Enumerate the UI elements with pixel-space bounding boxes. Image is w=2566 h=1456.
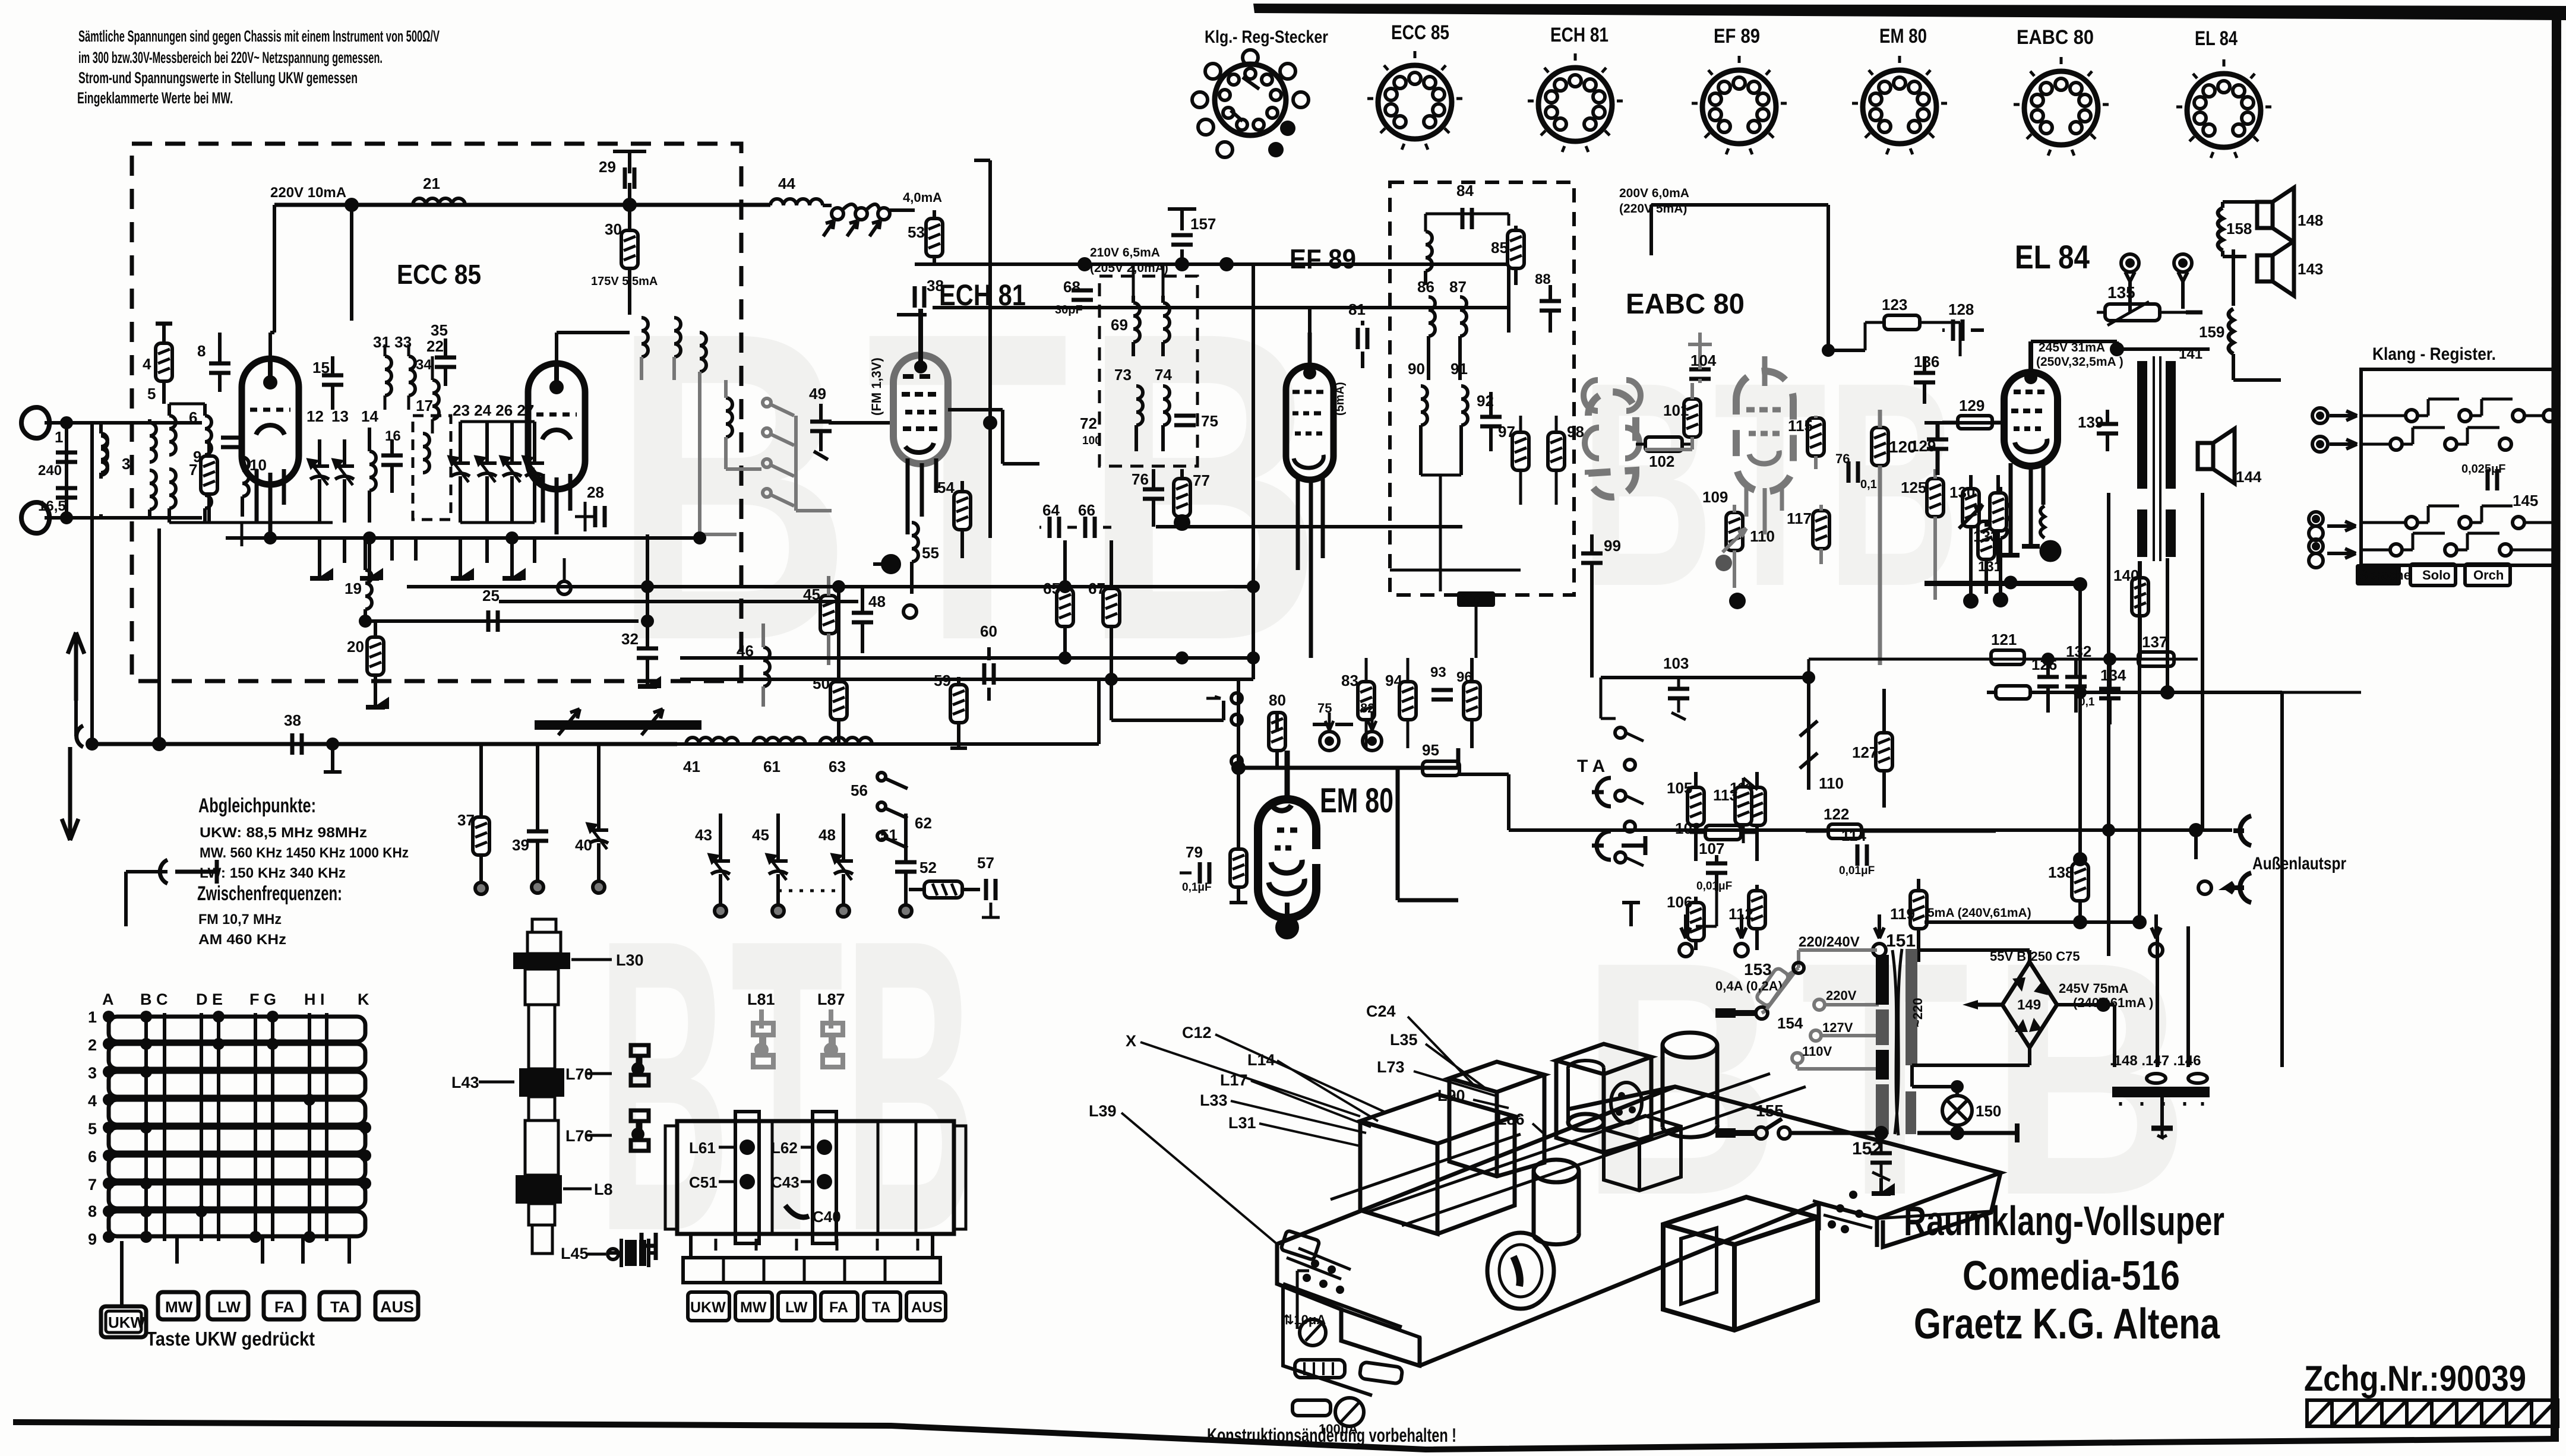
svg-text:ECC 85: ECC 85 xyxy=(1391,21,1449,44)
svg-text:B C: B C xyxy=(140,990,168,1008)
wire right x2353 xyxy=(1398,768,1458,900)
bridge right wire xyxy=(2057,1005,2115,1067)
svg-text:FA: FA xyxy=(829,1299,848,1316)
terminal circles pair xyxy=(1320,713,1382,751)
cap 16 xyxy=(381,455,403,465)
output transformer 141 xyxy=(2137,361,2147,489)
chassis deck hatch xyxy=(1331,1074,1806,1226)
cap 114 xyxy=(1857,844,1867,866)
resistor 20 xyxy=(367,637,384,675)
dots gray xyxy=(1715,555,1732,571)
svg-text:Eingeklammerte Werte bei MW.: Eingeklammerte Werte bei MW. xyxy=(77,89,233,107)
svg-text:D E: D E xyxy=(196,990,223,1008)
button FA xyxy=(264,1292,304,1319)
wire from tube b cathode down to 1046 xyxy=(646,534,649,621)
svg-text:38: 38 xyxy=(284,711,301,729)
arrow fork mid xyxy=(77,726,83,747)
svg-text:L62: L62 xyxy=(771,1139,798,1157)
speaker 148 xyxy=(2257,188,2294,242)
svg-text:L33: L33 xyxy=(1200,1091,1228,1109)
knob xyxy=(1487,1233,1554,1309)
svg-text:95: 95 xyxy=(1422,741,1439,759)
wire 99 to tone xyxy=(1590,588,1594,678)
callout lines xyxy=(1121,1017,1544,1244)
resistor 30 xyxy=(621,230,638,268)
wire 25 line xyxy=(365,619,639,623)
resistor 54 xyxy=(954,492,971,530)
svg-text:UKW: UKW xyxy=(690,1299,726,1316)
svg-text:110: 110 xyxy=(1750,527,1775,545)
switch contacts 56 58 62 xyxy=(884,778,908,848)
svg-text:105: 105 xyxy=(1667,779,1692,797)
title block hatching xyxy=(2307,1400,2558,1426)
svg-text:LW: LW xyxy=(785,1299,808,1316)
tube EL84 xyxy=(2004,372,2058,466)
svg-text:im 300 bzw.30V-Messbereich bei: im 300 bzw.30V-Messbereich bei 220V~ Net… xyxy=(78,49,383,67)
cap 75 xyxy=(1174,416,1196,425)
svg-text:77: 77 xyxy=(1193,471,1210,489)
wire top 104 xyxy=(1688,333,1712,344)
svg-text:L31: L31 xyxy=(1228,1114,1256,1132)
grid resistor 115 gray xyxy=(1807,416,1824,469)
wire x592 down xyxy=(350,205,353,321)
svg-text:L73: L73 xyxy=(1377,1058,1405,1076)
svg-text:144: 144 xyxy=(2236,468,2262,486)
EF89 tube xyxy=(1286,366,1333,480)
coil 5 transformer xyxy=(169,416,176,455)
svg-text:30pF: 30pF xyxy=(1055,303,1083,316)
AM bus extension xyxy=(796,679,1099,744)
cap 107 xyxy=(1706,863,1727,873)
res 121 h xyxy=(1991,650,2024,664)
res 105 xyxy=(1688,787,1704,825)
cap 92 xyxy=(1480,417,1502,426)
res 123 xyxy=(1884,315,1920,330)
klang input terminals xyxy=(2312,408,2357,423)
coil 63 xyxy=(820,738,872,744)
coil 133v xyxy=(2001,499,2007,538)
matrix strips xyxy=(109,1017,365,1236)
svg-text:C12: C12 xyxy=(1182,1024,1212,1042)
svg-text:⇅10μA: ⇅10μA xyxy=(1283,1312,1326,1327)
stub T xyxy=(324,744,342,772)
tube ECC85 triode b xyxy=(528,363,585,489)
tone: cap 103 xyxy=(1668,689,1689,698)
coil 55 cathode xyxy=(912,523,918,562)
tube pins ECH81 xyxy=(908,458,936,534)
res 111 xyxy=(1749,787,1765,825)
vertical x1667 xyxy=(974,160,990,538)
cap 68 xyxy=(1072,290,1093,300)
AM trimmer 48 xyxy=(833,855,853,880)
cap 126 xyxy=(2037,677,2059,686)
svg-text:129: 129 xyxy=(1910,437,1936,455)
svg-text:C51: C51 xyxy=(689,1173,718,1191)
svg-text:37: 37 xyxy=(457,811,475,829)
wire to switch row xyxy=(1111,679,1224,720)
cap 76 below xyxy=(1143,489,1164,499)
lamp 150 xyxy=(1942,1096,1972,1125)
svg-text:Klang - Register.: Klang - Register. xyxy=(2372,344,2496,364)
EF89 box drop xyxy=(1649,219,1653,255)
chassis deck xyxy=(1277,1087,2001,1366)
grid bus y906 xyxy=(226,536,701,540)
fuse 153 xyxy=(1755,967,1799,1013)
button LW xyxy=(208,1292,248,1319)
svg-text:L81: L81 xyxy=(747,990,775,1008)
svg-text:69: 69 xyxy=(1111,316,1128,334)
resistors 83 94 xyxy=(1358,682,1374,720)
svg-text:17: 17 xyxy=(416,397,433,414)
rear wedge xyxy=(1813,1201,1990,1218)
svg-text:L35: L35 xyxy=(1390,1031,1418,1049)
svg-text:Strom-und Spannungswerte in St: Strom-und Spannungswerte in Stellung UKW… xyxy=(78,69,358,87)
bus above EM80 xyxy=(1238,748,1458,768)
cap 139 xyxy=(2097,424,2118,433)
svg-text:EABC 80: EABC 80 xyxy=(1626,289,1745,320)
svg-text:110: 110 xyxy=(1819,774,1844,792)
pot 110b arrows xyxy=(1800,678,1818,790)
cap 129b xyxy=(1927,439,1948,449)
svg-text:31 33: 31 33 xyxy=(373,333,412,351)
tube socket EL84 xyxy=(2176,27,2271,158)
svg-text:22: 22 xyxy=(426,337,444,355)
L8 band xyxy=(516,1175,562,1204)
svg-text:143: 143 xyxy=(2298,260,2323,278)
coil 90 xyxy=(1421,386,1427,425)
cap 28 xyxy=(595,506,605,527)
svg-text:Sämtliche Spannungen sind gege: Sämtliche Spannungen sind gegen Chassis … xyxy=(78,27,440,45)
junction dot xyxy=(346,200,357,210)
svg-text:AUS: AUS xyxy=(380,1298,414,1316)
svg-text:30: 30 xyxy=(605,220,622,238)
tube ECC85 triode a xyxy=(242,359,299,485)
svg-text:MW: MW xyxy=(165,1298,193,1316)
svg-text:60: 60 xyxy=(980,622,997,640)
band switch contacts 42 43 xyxy=(832,208,843,220)
svg-text:149: 149 xyxy=(2017,997,2041,1013)
res 95 h xyxy=(1423,761,1459,776)
bridge left terminal xyxy=(1978,1003,2002,1007)
wire band bottom xyxy=(897,313,927,316)
svg-text:Zchg.Nr.:90039: Zchg.Nr.:90039 xyxy=(2304,1359,2526,1398)
mains terminal 1 xyxy=(1723,1010,1757,1016)
dial backplate xyxy=(1341,1309,1420,1366)
gray L87 I-beam xyxy=(823,1009,843,1067)
cap 32 xyxy=(637,648,658,658)
svg-text:55: 55 xyxy=(922,544,939,562)
L30 band xyxy=(513,952,570,969)
voltage taps xyxy=(1792,999,1879,1069)
klang row3 contacts xyxy=(2361,506,2556,528)
black dot terminal xyxy=(883,556,899,572)
cap 57 xyxy=(986,879,996,900)
dashed box UKW front end xyxy=(132,144,741,681)
cap 145 xyxy=(2488,469,2497,490)
block lower rows xyxy=(691,1234,933,1258)
coil 35 xyxy=(432,380,439,419)
svg-text:220/240V: 220/240V xyxy=(1799,934,1860,950)
svg-text:FA: FA xyxy=(274,1298,294,1316)
tube socket Klg.-Reg-Stecker xyxy=(1192,27,1328,157)
svg-text:(FM 1,3V): (FM 1,3V) xyxy=(869,357,884,416)
svg-text:32: 32 xyxy=(621,630,639,648)
svg-text:L8: L8 xyxy=(594,1180,613,1198)
svg-text:150: 150 xyxy=(1976,1102,2001,1120)
svg-text:115: 115 xyxy=(1788,417,1813,435)
svg-text:16: 16 xyxy=(385,428,401,444)
coil 69 xyxy=(1133,303,1140,342)
cap 48' xyxy=(852,613,873,622)
antenna terminal fork 2 xyxy=(21,502,49,533)
transformer core xyxy=(1892,949,1902,1135)
antenna coil 3 xyxy=(101,433,108,473)
svg-text:3: 3 xyxy=(122,455,130,473)
svg-text:245V 75mA: 245V 75mA xyxy=(2059,981,2129,996)
svg-text:97: 97 xyxy=(1498,423,1515,441)
svg-text:Solo: Solo xyxy=(2422,568,2451,583)
svg-text:0,01μF: 0,01μF xyxy=(1839,865,1875,877)
tube socket EF89 xyxy=(1692,25,1787,154)
coil 70 xyxy=(1163,303,1170,342)
res 133 xyxy=(1990,493,2006,531)
terminal circle below triode b xyxy=(558,581,571,594)
svg-text:75: 75 xyxy=(1201,412,1218,430)
cap 88 xyxy=(1540,301,1561,311)
svg-text:Raumklang-Vollsuper: Raumklang-Vollsuper xyxy=(1904,1198,2224,1244)
coil 10 xyxy=(242,457,249,496)
svg-text:80: 80 xyxy=(1269,691,1286,709)
tube pins ECC85a xyxy=(257,469,284,538)
svg-text:107: 107 xyxy=(1699,840,1724,857)
resistor 9 xyxy=(201,456,217,494)
bus y1013 xyxy=(499,600,858,603)
svg-text:53: 53 xyxy=(908,223,925,241)
svg-text:122: 122 xyxy=(1824,805,1849,823)
svg-text:X: X xyxy=(1126,1032,1136,1050)
button TA xyxy=(320,1292,359,1319)
svg-text:79: 79 xyxy=(1186,843,1203,861)
tube ECH81 electrodes xyxy=(902,309,937,452)
coil 21 xyxy=(413,198,465,205)
wire y1157 xyxy=(1987,691,2282,694)
svg-text:AUS: AUS xyxy=(911,1299,943,1316)
svg-text:Abgleichpunkte:: Abgleichpunkte: xyxy=(198,795,316,817)
svg-text:TA: TA xyxy=(872,1299,890,1316)
svg-text:ECH 81: ECH 81 xyxy=(1550,24,1609,46)
AVC wire right xyxy=(933,308,1509,333)
svg-text:2: 2 xyxy=(88,1036,97,1054)
svg-text:H I: H I xyxy=(304,990,325,1008)
resistor 52 boxed xyxy=(924,881,962,898)
output transformer 3D xyxy=(1663,1197,1818,1330)
wire antenna top xyxy=(45,421,202,425)
svg-text:0,1μF: 0,1μF xyxy=(1182,881,1212,894)
grid wire across xyxy=(948,410,1039,464)
cap 15 xyxy=(322,375,343,385)
main bus y1144 xyxy=(680,678,1253,681)
EM80 drop xyxy=(1237,679,1240,768)
svg-text:41: 41 xyxy=(683,758,700,776)
matrix junction dots xyxy=(103,1011,371,1243)
L43 band xyxy=(519,1068,564,1097)
pot 130 xyxy=(1963,489,1979,527)
tube ECH81 envelope xyxy=(893,355,948,464)
long verticals to PSU xyxy=(2080,493,2282,1067)
svg-text:Orch: Orch xyxy=(2473,568,2504,583)
res 138 xyxy=(2072,863,2088,901)
svg-text:12: 12 xyxy=(306,407,324,425)
res 108 h xyxy=(1705,825,1741,840)
svg-text:19: 19 xyxy=(345,580,362,597)
coil 43h xyxy=(753,738,805,744)
svg-text:Außenlautspr: Außenlautspr xyxy=(2252,854,2346,873)
Klang-Register box xyxy=(2361,369,2556,565)
svg-text:L76: L76 xyxy=(565,1127,593,1145)
text Abgleichpunkte xyxy=(197,795,409,948)
button UKW xyxy=(101,1306,146,1337)
cap 6 xyxy=(221,438,242,447)
svg-text:62: 62 xyxy=(915,814,932,832)
bus lines mid xyxy=(677,742,796,746)
header note text xyxy=(77,27,440,107)
long vertical x2110 xyxy=(1252,264,1255,679)
speaker transformer 158 xyxy=(2218,208,2223,251)
svg-text:151: 151 xyxy=(1886,931,1916,951)
wire bus down to tube a xyxy=(270,205,274,356)
svg-text:3: 3 xyxy=(88,1064,97,1082)
svg-text:ECH 81: ECH 81 xyxy=(939,278,1026,312)
L45 part xyxy=(625,1240,637,1266)
resistor 50 xyxy=(830,682,847,720)
connector strip right xyxy=(1819,1203,1877,1228)
svg-text:73: 73 xyxy=(1114,366,1132,384)
AM trimmer 45 xyxy=(767,855,788,880)
svg-text:L45: L45 xyxy=(561,1245,589,1262)
svg-text:129: 129 xyxy=(1959,397,1984,414)
res 140 xyxy=(2132,578,2148,616)
EL84 bottom wires xyxy=(2011,463,2043,555)
svg-text:.148 .147 .146: .148 .147 .146 xyxy=(2110,1053,2201,1069)
coil 83 xyxy=(1426,232,1432,271)
svg-text:Zwischenfrequenzen:: Zwischenfrequenzen: xyxy=(197,882,342,905)
label 152 cap xyxy=(1876,1128,1886,1138)
svg-text:72: 72 xyxy=(1080,414,1097,432)
svg-text:101: 101 xyxy=(1663,401,1689,419)
tuning cap 13 xyxy=(334,460,354,485)
cap 157 xyxy=(1168,209,1196,230)
res 112 xyxy=(1749,891,1765,929)
svg-text:T A: T A xyxy=(1577,757,1605,776)
svg-text:87: 87 xyxy=(1449,278,1467,296)
svg-text:L87: L87 xyxy=(817,990,845,1008)
svg-text:127: 127 xyxy=(1852,743,1878,761)
coil 159 xyxy=(2229,309,2233,354)
svg-text:Sprache: Sprache xyxy=(2359,568,2411,583)
coil stack top cap xyxy=(532,919,556,932)
resistor 65 xyxy=(1057,588,1073,626)
svg-text:L86: L86 xyxy=(1497,1110,1525,1128)
svg-text:99: 99 xyxy=(1604,537,1621,555)
svg-text:68: 68 xyxy=(1063,278,1080,296)
coil 91 xyxy=(1461,386,1468,425)
svg-text:0,025μF: 0,025μF xyxy=(2461,463,2506,476)
svg-text:175V 5,5mA: 175V 5,5mA xyxy=(591,275,658,288)
cap 8 xyxy=(209,363,230,373)
svg-text:157: 157 xyxy=(1190,215,1216,233)
svg-text:44: 44 xyxy=(778,175,795,192)
bus y345 EF89 xyxy=(1651,205,1865,350)
svg-text:EM 80: EM 80 xyxy=(1320,781,1393,820)
svg-text:UKW: UKW xyxy=(108,1313,146,1331)
svg-text:0,01μF: 0,01μF xyxy=(1696,880,1732,892)
svg-text:52: 52 xyxy=(919,859,937,876)
svg-text:76: 76 xyxy=(1835,451,1850,466)
chassis back panel xyxy=(1568,1087,2001,1247)
svg-text:48: 48 xyxy=(868,593,886,610)
svg-text:98: 98 xyxy=(1567,423,1584,441)
svg-text:110V: 110V xyxy=(1802,1044,1832,1059)
front keyboard 3D xyxy=(1287,1248,1351,1279)
svg-text:EF 89: EF 89 xyxy=(1290,243,1356,274)
svg-text:Graetz K.G. Altena: Graetz K.G. Altena xyxy=(1914,1300,2220,1348)
resistor 80 xyxy=(1269,713,1285,751)
svg-text:81: 81 xyxy=(1348,300,1366,318)
svg-text:54: 54 xyxy=(937,479,955,496)
svg-text:ECC 85: ECC 85 xyxy=(397,259,481,290)
resistor 77 xyxy=(1174,479,1190,517)
tuning cap 12 xyxy=(309,460,329,485)
tube EABC80 triode gray xyxy=(1736,371,1793,492)
tube EABC80 diode (gray) xyxy=(1588,392,1636,497)
chassis front rail xyxy=(1277,1203,1877,1366)
resistor 131v xyxy=(1978,521,1995,559)
svg-text:5mA (240V,61mA): 5mA (240V,61mA) xyxy=(1927,906,2031,920)
svg-text:13: 13 xyxy=(331,407,349,425)
cap 132 xyxy=(2065,677,2087,686)
svg-text:50: 50 xyxy=(813,675,830,692)
svg-text:84: 84 xyxy=(1456,182,1474,200)
svg-text:39: 39 xyxy=(512,836,529,854)
switch block outer xyxy=(677,1121,954,1234)
svg-text:UKW: 88,5 MHz 98MHz: UKW: 88,5 MHz 98MHz xyxy=(200,825,367,841)
svg-text:6: 6 xyxy=(88,1148,97,1166)
svg-text:L30: L30 xyxy=(616,951,644,969)
TA fork 1 xyxy=(1592,778,1611,806)
svg-text:1: 1 xyxy=(55,428,63,446)
svg-text:Taste UKW gedrückt: Taste UKW gedrückt xyxy=(146,1328,315,1350)
matrix button stubs xyxy=(122,1236,349,1306)
svg-text:83: 83 xyxy=(1341,672,1358,689)
svg-text:EL 84: EL 84 xyxy=(2195,27,2238,50)
coil 46 gray xyxy=(763,623,770,707)
svg-text:25: 25 xyxy=(482,587,500,604)
AVC bus y988 xyxy=(407,585,1253,588)
resistor 125 gray xyxy=(1927,469,1944,600)
svg-text:AM 460 KHz: AM 460 KHz xyxy=(198,932,286,948)
svg-text:240: 240 xyxy=(38,463,62,479)
res 122 h xyxy=(1828,824,1862,838)
resistor 4 xyxy=(156,343,172,381)
antenna arrow up xyxy=(68,632,84,701)
svg-text:210V 6,5mA: 210V 6,5mA xyxy=(1090,246,1160,259)
caps 64 66 xyxy=(1050,517,1059,538)
svg-text:9: 9 xyxy=(193,448,201,466)
svg-text:8: 8 xyxy=(88,1202,97,1220)
svg-text:109: 109 xyxy=(1702,488,1728,506)
resistor 45' gray xyxy=(820,576,837,665)
switch 80 contacts xyxy=(1231,693,1242,704)
